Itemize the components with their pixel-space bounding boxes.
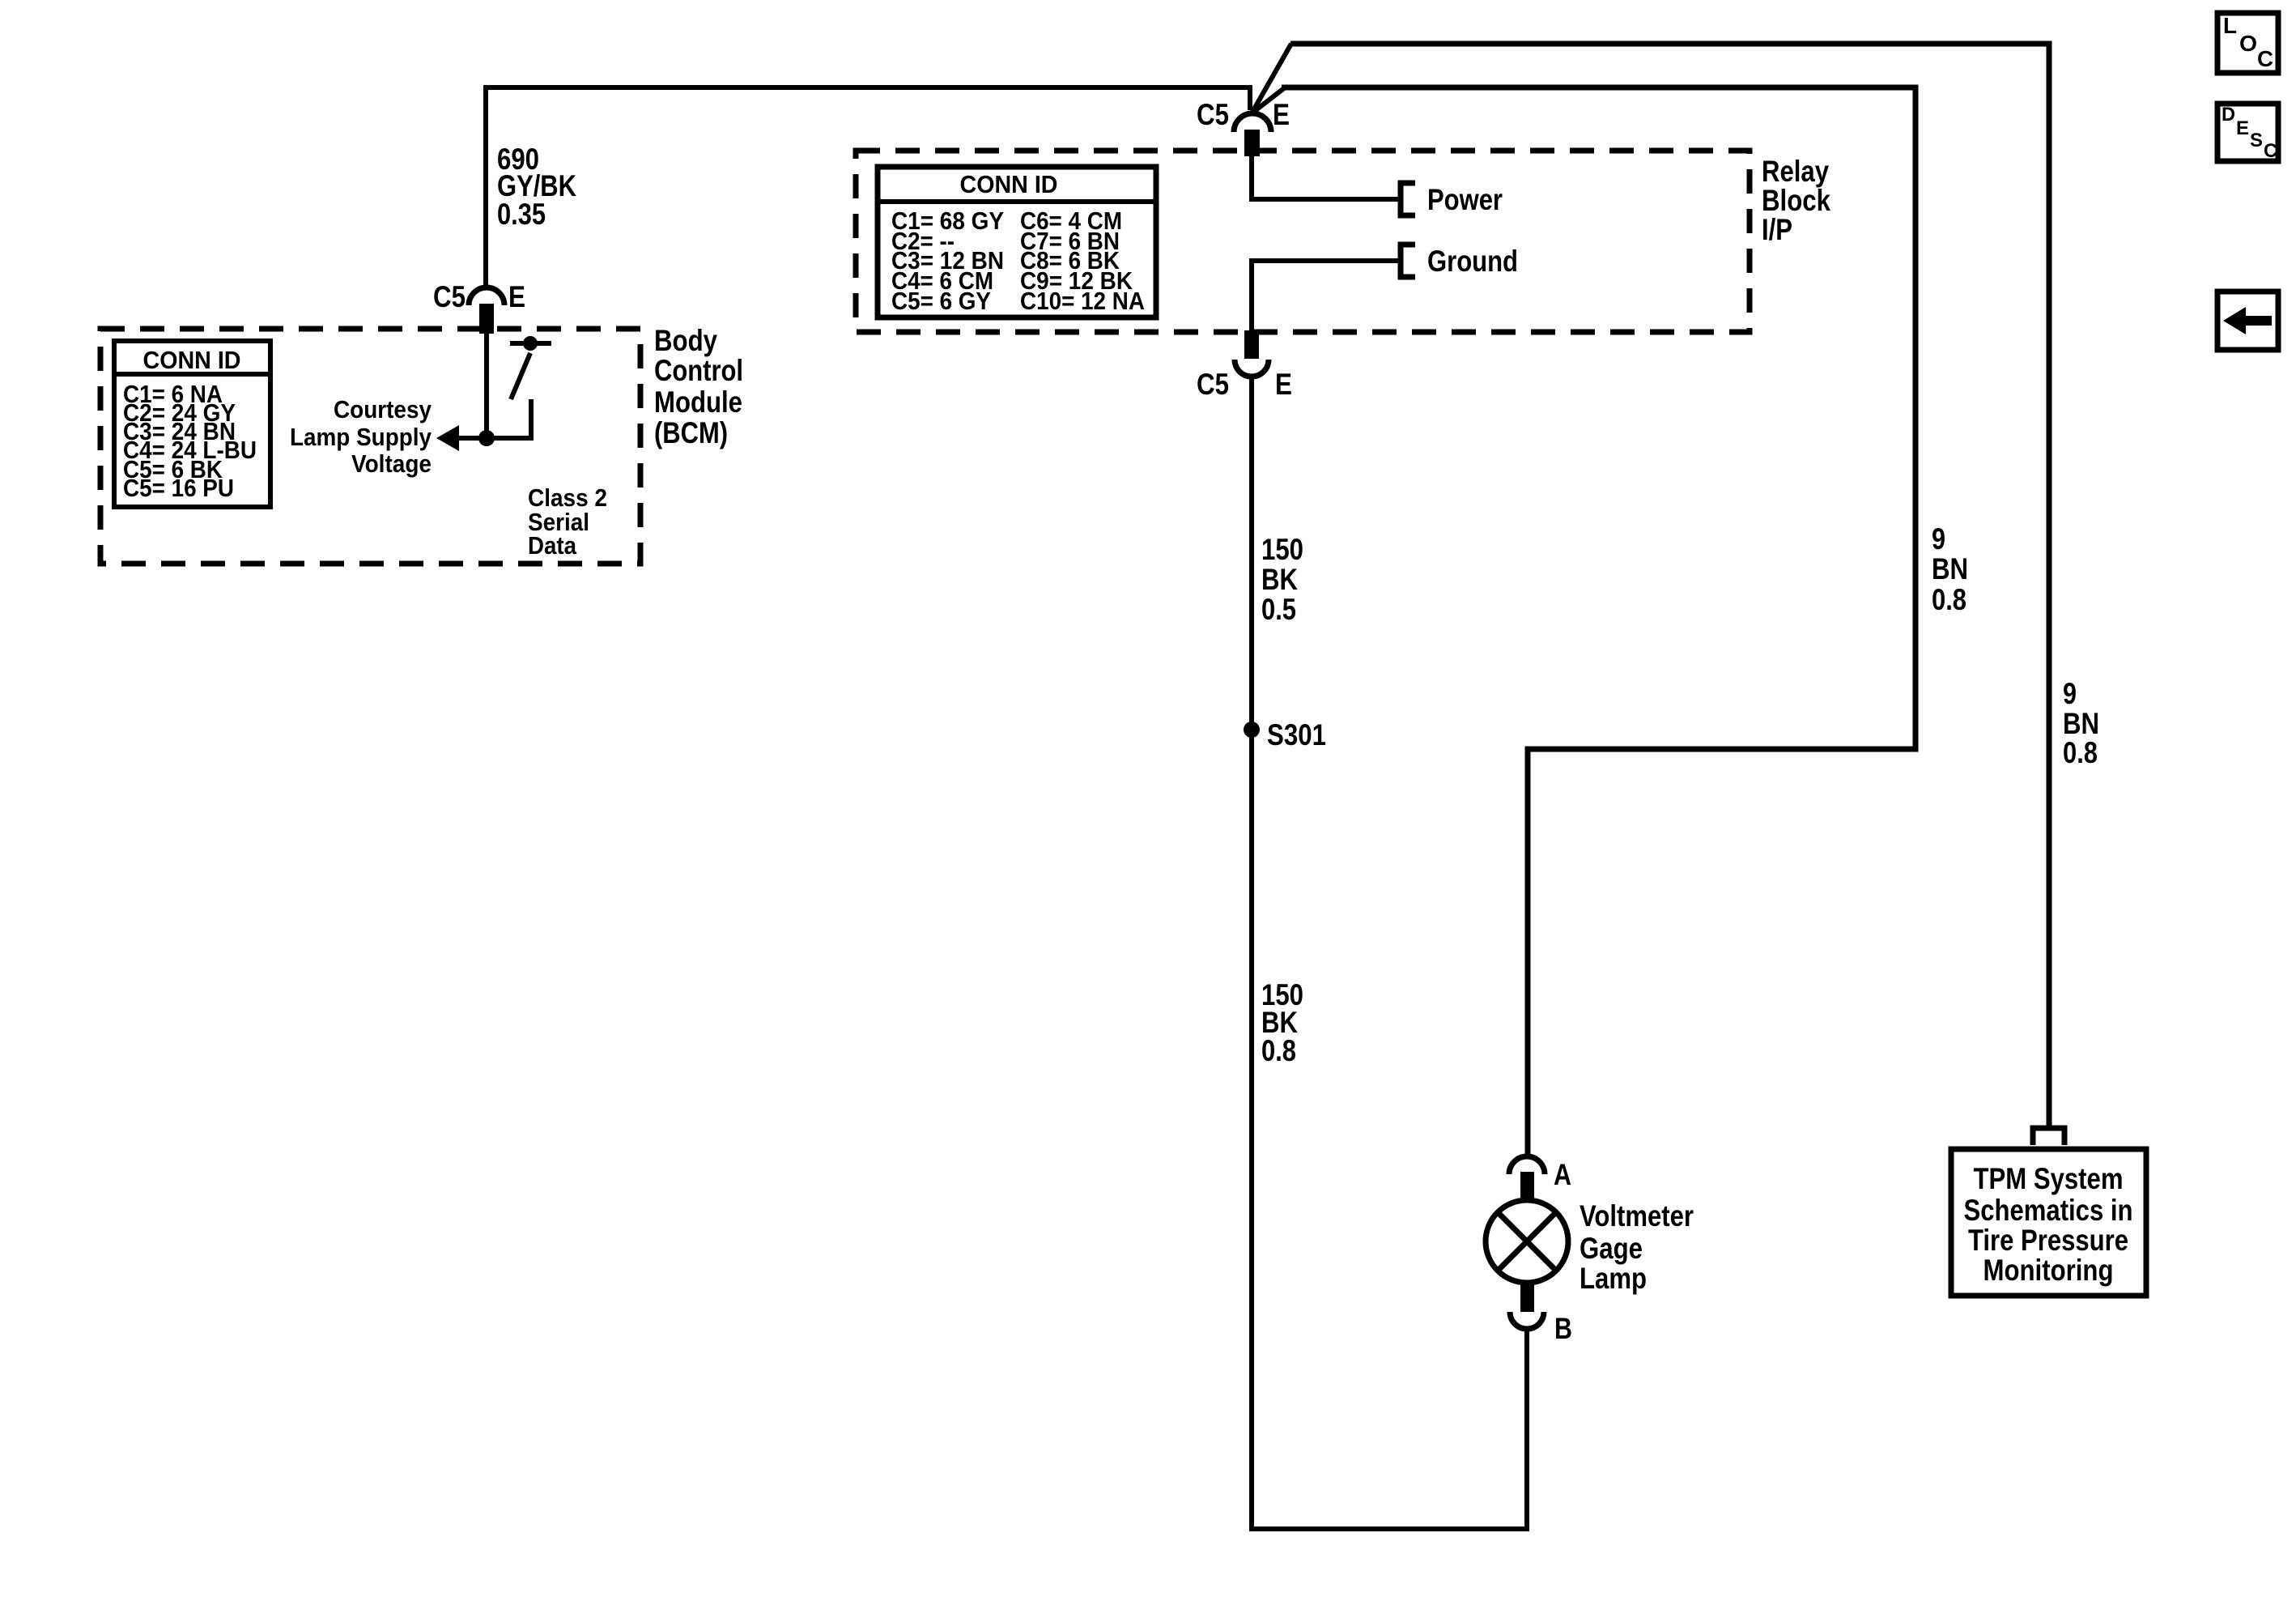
svg-text:9: 9 — [2063, 677, 2077, 710]
svg-text:Gage: Gage — [1580, 1232, 1643, 1265]
svg-text:0.8: 0.8 — [2063, 736, 2098, 769]
switch (BCM internal) fixed contact — [510, 341, 551, 346]
connector C5 pin E at relay block top (arc + pin) — [1234, 113, 1271, 156]
svg-text:Tire Pressure: Tire Pressure — [1968, 1224, 2128, 1257]
connector C5 pin E at BCM (arc + pin) — [469, 287, 504, 334]
relay CONN ID table frame — [878, 167, 1156, 317]
junction dot (Courtesy Lamp Supply Voltage node) — [478, 430, 495, 446]
svg-text:S: S — [2250, 130, 2263, 151]
wire BCM pin E to junction — [484, 334, 489, 438]
wire diagonal from C5-E junction to second run — [1252, 88, 1284, 113]
svg-text:CONN ID: CONN ID — [960, 170, 1058, 198]
Relay Block I/P dashed outline box — [856, 151, 1750, 332]
svg-text:Data: Data — [528, 531, 577, 560]
svg-text:E: E — [1273, 98, 1290, 131]
svg-text:A: A — [1554, 1158, 1571, 1191]
svg-text:Schematics in: Schematics in — [1964, 1194, 2133, 1227]
svg-text:Relay: Relay — [1762, 155, 1829, 188]
svg-text:0.8: 0.8 — [1932, 583, 1966, 616]
wire Ground terminal to relay C5 exit — [1252, 261, 1398, 331]
wire relay C5 to Power terminal — [1252, 156, 1398, 199]
svg-text:150: 150 — [1261, 533, 1303, 566]
svg-text:C10= 12 NA: C10= 12 NA — [1020, 287, 1145, 315]
svg-text:TPM System: TPM System — [1974, 1162, 2124, 1195]
Power terminal bracket — [1401, 183, 1415, 215]
svg-text:Voltage: Voltage — [351, 449, 432, 478]
svg-text:Ground: Ground — [1427, 245, 1518, 278]
svg-text:C5: C5 — [1197, 98, 1229, 131]
TPM System box — [1951, 1149, 2146, 1296]
svg-text:E: E — [508, 280, 525, 313]
icon LOC (hyperlink box) — [2217, 13, 2278, 73]
svg-text:Voltmeter: Voltmeter — [1580, 1199, 1694, 1233]
svg-text:Monitoring: Monitoring — [1983, 1254, 2114, 1287]
connector pin B of lamp (pin + cup) — [1510, 1284, 1544, 1329]
arrow Courtesy Lamp Supply Voltage — [458, 436, 487, 441]
BCM dashed outline box — [100, 329, 640, 564]
Ground terminal bracket — [1401, 245, 1415, 277]
wire 9 BN 0.8 second run (C5-E right, down, left, to lamp A) — [1282, 87, 1915, 1158]
svg-text:Lamp: Lamp — [1580, 1262, 1647, 1295]
wire 690 GY/BK 0.35 (BCM up and across to C5-E) — [486, 87, 1250, 289]
svg-text:Body: Body — [654, 324, 717, 357]
wire diagonal from C5-E junction up to top run — [1252, 44, 1291, 113]
svg-text:0.5: 0.5 — [1261, 593, 1296, 626]
svg-text:B: B — [1554, 1312, 1572, 1345]
connector pin A of lamp (arc + pin) — [1509, 1156, 1545, 1199]
svg-text:S301: S301 — [1267, 718, 1326, 752]
svg-text:E: E — [2236, 117, 2249, 139]
svg-text:L: L — [2223, 13, 2237, 38]
svg-text:C: C — [2257, 46, 2273, 71]
switch lower contact wire — [487, 399, 531, 438]
svg-text:C5: C5 — [1197, 368, 1229, 401]
svg-text:BK: BK — [1261, 563, 1298, 596]
BCM CONN ID table frame — [114, 341, 270, 507]
svg-text:Power: Power — [1427, 183, 1503, 216]
svg-text:O: O — [2239, 31, 2257, 56]
svg-text:C5= 6 GY: C5= 6 GY — [891, 287, 991, 315]
svg-text:C5= 16 PU: C5= 16 PU — [123, 474, 234, 502]
svg-text:I/P: I/P — [1762, 213, 1792, 246]
svg-text:D: D — [2222, 104, 2235, 126]
splice S301 — [1244, 722, 1260, 738]
wire 150 BK (relay C5 down through S301, bottom loop to lamp B) — [1252, 377, 1527, 1529]
svg-text:Block: Block — [1762, 184, 1830, 217]
icon DESC (hyperlink box) — [2217, 104, 2278, 162]
svg-text:Module: Module — [654, 385, 742, 419]
svg-text:Lamp Supply: Lamp Supply — [290, 423, 432, 451]
wire 9 BN 0.8 top run (C5-E to TPM, top-right loop) — [1290, 44, 2049, 1127]
svg-text:0.8: 0.8 — [1261, 1034, 1296, 1067]
TPM in-line connector bracket — [2033, 1128, 2064, 1145]
svg-text:C5: C5 — [433, 280, 466, 313]
svg-text:Control: Control — [654, 354, 743, 387]
switch blade — [511, 353, 530, 399]
svg-text:E: E — [1275, 368, 1292, 401]
svg-text:CONN ID: CONN ID — [143, 346, 241, 374]
svg-text:Courtesy: Courtesy — [334, 395, 432, 424]
svg-text:BN: BN — [2063, 707, 2099, 740]
svg-text:C: C — [2264, 140, 2277, 162]
icon back arrow box — [2217, 292, 2278, 350]
connector C5 pin E at relay block bottom (pin + cup) — [1235, 330, 1269, 377]
lamp Voltmeter Gage Lamp (circle with X) — [1486, 1200, 1568, 1283]
svg-text:0.35: 0.35 — [497, 198, 546, 231]
svg-text:(BCM): (BCM) — [654, 416, 728, 449]
svg-text:BN: BN — [1932, 552, 1968, 585]
svg-text:9: 9 — [1932, 522, 1945, 556]
